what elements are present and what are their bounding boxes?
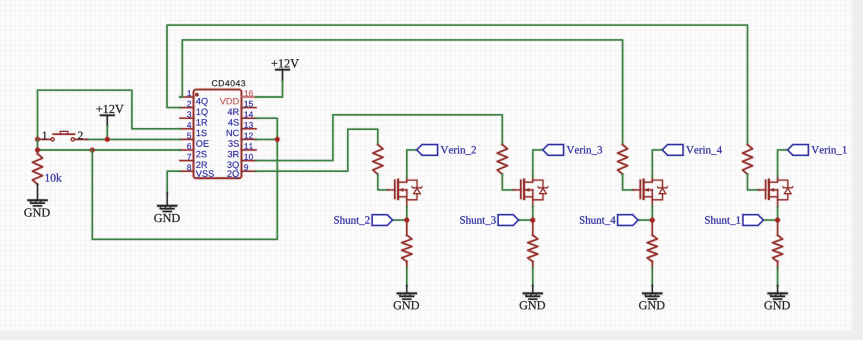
ground GND (block 2) — [520, 286, 545, 310]
port Verin_1 — [788, 145, 847, 156]
wire port Shunt_3 to shunt node — [518, 218, 532, 221]
wire lower row to pin6 2S — [38, 139, 181, 150]
pin 11 (3R) — [228, 143, 256, 157]
pin 8 (VSS) — [180, 164, 214, 177]
wire gate resistor to Q4 gate — [748, 174, 759, 190]
junction shunt node 4 — [774, 217, 780, 223]
ground GND (block 3) — [639, 286, 664, 310]
ground GND (block 4) — [764, 286, 789, 310]
pin 5 (OE) — [180, 133, 209, 147]
wire drain to port Verin_1 — [778, 150, 788, 177]
wire shunt resistor to ground 4 — [776, 268, 779, 287]
junction shunt node 3 — [649, 217, 655, 223]
pin 9 (2Q) — [227, 164, 256, 178]
transistor Q3 N-MOSFET — [633, 177, 668, 207]
resistor Rs4 (shunt) — [773, 220, 783, 267]
wire switch row to pin5 OE — [87, 138, 180, 141]
resistor R5 10k — [33, 150, 62, 184]
wire pin12 3S stub — [256, 138, 277, 141]
wire gate resistor to Q1 gate — [378, 174, 388, 190]
wire source to shunt node — [405, 206, 408, 220]
port Shunt_1 — [705, 215, 763, 226]
wire pin9 2Q to block1 resistor — [256, 129, 378, 171]
ground GND (block 1) — [394, 286, 419, 310]
wire source to shunt node — [651, 206, 654, 220]
junction +12V/OE — [104, 136, 110, 142]
pin 15 (4R) — [228, 101, 256, 115]
resistor Rs3 (shunt) — [647, 220, 657, 267]
wire drain to port Verin_2 — [407, 150, 417, 177]
resistor Rg1 (gate series) — [373, 145, 383, 175]
junction shunt node 1 — [404, 217, 410, 223]
wire pin14 4S down to pin12 3S — [256, 118, 277, 139]
resistor Rg2 (gate series) — [497, 145, 507, 175]
pin 2 (1Q) — [180, 101, 208, 117]
pin 16 (VDD) — [220, 90, 256, 104]
pin 12 (3S) — [228, 133, 256, 147]
power +12V (left) — [96, 105, 123, 139]
power +12V (VDD) — [256, 59, 299, 97]
wire port Shunt_4 to shunt node — [638, 218, 652, 221]
port Shunt_2 — [334, 215, 392, 226]
wire shunt resistor to ground 1 — [405, 268, 408, 287]
transistor Q2 N-MOSFET — [514, 177, 549, 207]
transistor Q1 N-MOSFET — [388, 177, 423, 207]
resistor Rs2 (shunt) — [528, 220, 538, 267]
port Verin_3 — [543, 145, 602, 156]
wire port Shunt_2 to shunt node — [392, 218, 406, 221]
IC U1 CD4043 — [194, 80, 246, 178]
transistor Q4 N-MOSFET — [758, 177, 793, 207]
junction 3S node — [274, 136, 280, 142]
pin 4 (1S) — [180, 122, 207, 136]
wire drain to port Verin_4 — [652, 150, 662, 177]
resistor Rg3 (gate series) — [618, 145, 628, 175]
pin 1 (4Q) — [180, 90, 208, 106]
wire gate resistor to Q3 gate — [623, 174, 634, 190]
ground GND (10k) — [24, 184, 49, 216]
wire shunt resistor to ground 2 — [531, 268, 534, 287]
wire shunt resistor to ground 3 — [651, 268, 654, 287]
pin 13 (NC) — [227, 122, 256, 136]
wire port Shunt_1 to shunt node — [763, 218, 777, 221]
pushbutton S1 — [38, 131, 88, 141]
wire pin8 VSS to ground — [167, 171, 180, 193]
wire pin1 4Q to block3 resistor — [180, 40, 623, 145]
junction switch-left — [34, 136, 40, 142]
pin 14 (4S) — [228, 112, 256, 126]
wire source to shunt node — [776, 206, 779, 220]
pin 6 (2S) — [180, 143, 207, 157]
port Verin_2 — [417, 145, 476, 156]
pin 3 (1R) — [180, 111, 207, 125]
junction lower-left — [34, 147, 40, 153]
wire source to shunt node — [531, 206, 534, 220]
port Verin_4 — [662, 145, 722, 156]
wire pin2 1Q to block4 resistor — [167, 25, 748, 145]
pin 7 (2R) — [180, 154, 207, 168]
wire gate resistor to Q2 gate — [502, 174, 514, 190]
wire pin4 1S to switch junction — [38, 90, 181, 139]
junction lower-mid — [89, 147, 95, 153]
port Shunt_4 — [580, 215, 638, 226]
port Shunt_3 — [460, 215, 518, 226]
pin 10 (3Q) — [227, 154, 256, 170]
resistor Rs1 (shunt) — [402, 220, 412, 267]
junction shunt node 2 — [530, 217, 536, 223]
resistor Rg4 (gate series) — [743, 145, 753, 175]
wire pin10 3Q to block2 resistor — [256, 115, 502, 161]
wire 2S row down and across to 3S/4S junction — [92, 139, 277, 239]
ground GND (IC VSS) — [154, 193, 179, 222]
wire drain to port Verin_3 — [533, 150, 543, 177]
